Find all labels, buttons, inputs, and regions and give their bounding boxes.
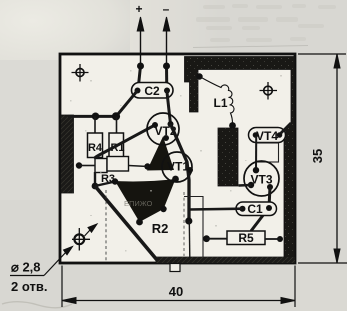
junction node R1 top — [112, 112, 120, 120]
wire VT3 to C1 to R5 — [251, 187, 270, 231]
leader line hole callout — [10, 224, 97, 276]
copper polygon R2 region — [115, 179, 176, 222]
scan specks on board — [70, 70, 282, 252]
pad top plus — [137, 63, 144, 70]
svg-text:–: – — [163, 2, 170, 16]
wire VT4 to copper — [281, 123, 292, 134]
copper block under L1 — [218, 128, 238, 186]
svg-text:35: 35 — [310, 149, 325, 163]
scan crease line top — [193, 46, 308, 48]
wire R3 right lead — [129, 166, 149, 167]
wire R4 stub — [94, 117, 96, 135]
transistor VT2 — [147, 113, 179, 145]
svg-text:⌀ 2,8: ⌀ 2,8 — [11, 260, 41, 275]
capacitor C1 — [236, 202, 277, 216]
mounting hole top-right — [260, 82, 278, 100]
transistor VT3 — [239, 161, 280, 196]
transistor VT1 — [162, 152, 192, 182]
wire pad to bottom copper — [188, 221, 191, 258]
wire VT4 to VT3 — [255, 136, 257, 170]
svg-text:R4: R4 — [88, 142, 103, 154]
junction node R4 top — [92, 113, 100, 121]
wire bus horizontal — [68, 115, 116, 118]
wire VT2 through VT1 right to pad — [171, 124, 190, 221]
resistor R1 — [109, 133, 125, 158]
svg-text:2 отв.: 2 отв. — [11, 279, 47, 294]
copper triangle VT2-VT1 — [147, 137, 174, 171]
pad polygon right — [160, 206, 166, 212]
pad polygon bottom — [136, 219, 143, 226]
svg-text:VT4: VT4 — [256, 129, 278, 143]
dimension 40 — [62, 298, 295, 304]
transistor VT4 — [249, 128, 286, 163]
dashed outline right — [183, 192, 185, 256]
scan noise top margin — [196, 4, 336, 42]
dimension 35 — [334, 54, 340, 263]
svg-text:L1: L1 — [213, 96, 227, 110]
pad R5 right — [277, 236, 283, 242]
pad VT1 right — [187, 167, 193, 173]
svg-text:C2: C2 — [144, 84, 160, 98]
junction node below R3 — [92, 183, 99, 190]
board substrate — [60, 54, 295, 263]
wire long diagonal to bottom copper — [95, 186, 157, 260]
wire R5 right lead — [265, 238, 280, 240]
extension line right bottom — [298, 262, 347, 264]
pad top minus — [163, 63, 170, 70]
wire C2 right to VT2 — [167, 91, 171, 125]
connector notch bottom — [170, 264, 180, 272]
svg-text:+: + — [135, 2, 142, 16]
svg-text:C1: C1 — [247, 202, 263, 216]
wire top pads to C2 — [138, 66, 167, 90]
wire R1 stub — [116, 117, 118, 135]
pad R5 left — [203, 235, 210, 242]
extension line bottom left — [61, 266, 63, 308]
svg-text:ЕПИЖО: ЕПИЖО — [124, 199, 153, 208]
wire junction to polygon — [95, 182, 115, 187]
wire C1 left — [190, 207, 243, 210]
resistor R3 — [95, 157, 129, 186]
pad polygon left — [112, 178, 118, 184]
resistor R5 — [227, 231, 265, 245]
copper bar left — [61, 115, 74, 193]
wire VT2 to R3 junction — [94, 125, 155, 159]
resistor R4 — [88, 133, 103, 158]
region boundary line — [184, 197, 203, 258]
bottom copper band hatch — [156, 257, 295, 263]
mounting hole bottom-left — [72, 228, 90, 251]
capacitor C2 — [132, 83, 174, 99]
svg-text:R2: R2 — [152, 221, 169, 236]
inductor L1 — [196, 73, 236, 129]
wire R5 left lead — [207, 238, 228, 240]
pad mid bottom — [185, 217, 192, 224]
copper pour top-right-bottom — [156, 57, 295, 264]
scan squiggle bottom-left — [2, 302, 72, 308]
wire R3 left lead — [79, 165, 95, 167]
mounting hole top-left — [72, 64, 89, 82]
extension line bottom right — [294, 266, 296, 308]
svg-text:40: 40 — [169, 284, 183, 299]
extension line right top — [298, 53, 346, 55]
pad R3 right — [144, 163, 150, 169]
wire C2 left to junction — [116, 91, 138, 117]
dashed outline left — [105, 190, 107, 261]
wire plus lead — [137, 17, 144, 66]
wire minus lead — [163, 17, 170, 66]
wire R3 bottom to junction — [94, 172, 96, 186]
pad R3 left — [76, 162, 82, 168]
svg-text:R5: R5 — [238, 231, 254, 245]
